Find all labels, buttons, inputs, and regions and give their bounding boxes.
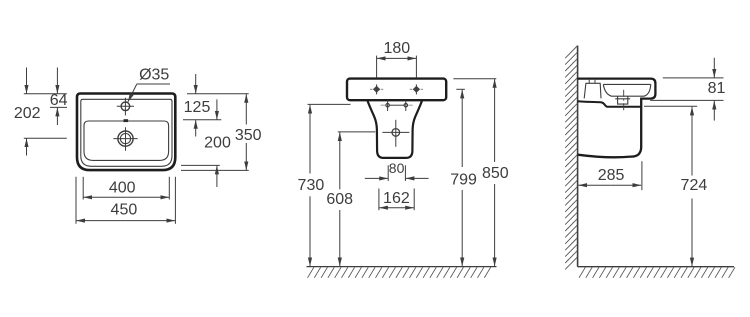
svg-text:730: 730: [298, 177, 325, 194]
svg-text:450: 450: [111, 201, 138, 218]
svg-text:64: 64: [50, 92, 68, 109]
svg-text:350: 350: [235, 127, 262, 144]
svg-text:80: 80: [389, 160, 405, 176]
svg-text:180: 180: [383, 40, 410, 57]
svg-text:81: 81: [708, 80, 726, 97]
svg-text:608: 608: [326, 191, 353, 208]
svg-text:799: 799: [450, 172, 477, 189]
svg-text:400: 400: [109, 180, 136, 197]
svg-text:202: 202: [14, 105, 41, 122]
svg-text:724: 724: [681, 177, 708, 194]
svg-text:Ø35: Ø35: [139, 67, 169, 84]
svg-text:200: 200: [204, 135, 231, 152]
svg-text:285: 285: [598, 167, 625, 184]
svg-text:162: 162: [383, 190, 410, 207]
svg-text:125: 125: [184, 99, 211, 116]
svg-text:850: 850: [482, 165, 509, 182]
